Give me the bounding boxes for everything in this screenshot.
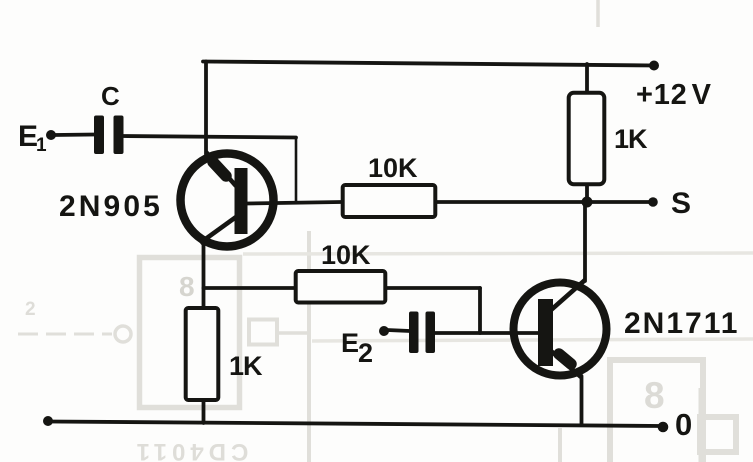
svg-text:10K: 10K (368, 153, 418, 183)
svg-text:2N1711: 2N1711 (624, 307, 739, 340)
svg-text:C: C (101, 81, 120, 111)
svg-text:8: 8 (179, 271, 195, 302)
svg-text:0: 0 (675, 407, 692, 442)
svg-text:10K: 10K (321, 240, 371, 270)
svg-text:2N905: 2N905 (59, 190, 163, 223)
svg-text:2: 2 (358, 338, 373, 368)
svg-text:2: 2 (25, 299, 36, 320)
svg-text:CD4011: CD4011 (132, 438, 249, 462)
svg-text:+12V: +12V (636, 79, 712, 111)
svg-text:E: E (18, 120, 38, 153)
svg-text:S: S (671, 187, 691, 220)
svg-text:1K: 1K (614, 124, 648, 154)
svg-text:1: 1 (36, 135, 47, 156)
svg-text:8: 8 (644, 375, 665, 416)
svg-text:E: E (341, 328, 359, 358)
svg-text:1K: 1K (229, 351, 263, 381)
